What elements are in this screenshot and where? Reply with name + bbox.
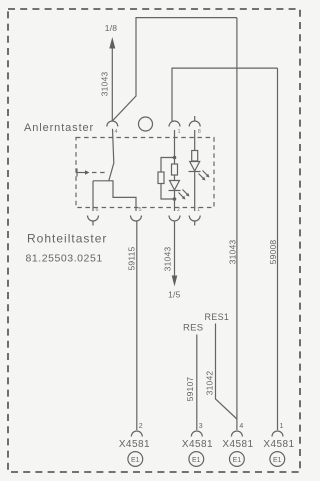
- svg-text:81.25503.0251: 81.25503.0251: [26, 253, 103, 265]
- wire junction to resistor: [174, 158, 176, 165]
- wire: [174, 175, 176, 181]
- LED D1: [169, 181, 190, 200]
- switch top pin: [107, 121, 118, 127]
- dashed box pushbutton unit: [76, 138, 214, 208]
- svg-text:5: 5: [139, 207, 142, 213]
- wire top net to LED unit pin: [172, 68, 278, 121]
- switch blade: [109, 129, 114, 181]
- svg-text:RES: RES: [183, 323, 203, 334]
- pin stub: [92, 221, 94, 226]
- wire 31042 to X4581.4: [216, 324, 237, 420]
- svg-text:E1: E1: [233, 457, 242, 464]
- wire 59115 to X4581.2: [136, 221, 138, 430]
- svg-text:31043: 31043: [100, 72, 110, 97]
- svg-text:E1: E1: [273, 457, 282, 464]
- wire 59008 vertical to X4581.1: [277, 68, 279, 430]
- svg-text:31042: 31042: [205, 371, 215, 396]
- wire 31043 to switch pin: [111, 48, 113, 122]
- svg-text:Anlerntaster: Anlerntaster: [24, 122, 94, 134]
- LED unit left top pin: [169, 121, 181, 157]
- svg-text:4: 4: [115, 129, 118, 135]
- box bottom pin (unconnected): [88, 216, 99, 222]
- button circle: [139, 117, 153, 131]
- svg-text:E1: E1: [192, 457, 201, 464]
- ground E1: [128, 452, 143, 467]
- svg-text:59115: 59115: [126, 246, 136, 270]
- wire 31043 to 1/5: [174, 221, 176, 279]
- svg-text:31043: 31043: [162, 247, 172, 272]
- svg-text:59008: 59008: [268, 240, 278, 265]
- svg-text:1/5: 1/5: [168, 290, 180, 300]
- wire to switch from top net: [113, 18, 237, 121]
- wire 59107 to X4581.3: [196, 335, 198, 431]
- mechanical actuation arrow: [77, 169, 108, 177]
- ground E1: [189, 452, 204, 467]
- svg-text:E1: E1: [131, 457, 140, 464]
- ground E1: [270, 452, 285, 467]
- svg-text:X4581: X4581: [222, 439, 253, 450]
- svg-text:1: 1: [280, 423, 284, 430]
- svg-text:3: 3: [199, 423, 203, 430]
- svg-text:1: 1: [178, 129, 181, 135]
- connector X4581 pin 2: [119, 423, 150, 450]
- wire to bottom-left pin: [92, 181, 94, 211]
- box bottom pin to 59115: [131, 216, 142, 222]
- svg-text:4: 4: [239, 423, 243, 430]
- LED D2: [189, 162, 210, 181]
- resistor R-right: [192, 151, 198, 162]
- resistor R-series: [172, 164, 178, 175]
- ground E1: [230, 452, 245, 467]
- LED unit bottom pin (unconnected): [189, 207, 200, 226]
- svg-text:2: 2: [177, 207, 180, 213]
- svg-text:RES1: RES1: [205, 312, 230, 322]
- connector X4581 pin 4: [222, 423, 253, 450]
- svg-text:1: 1: [197, 207, 200, 213]
- arrow to 1/5: [172, 276, 178, 287]
- parallel resistor branch: [161, 158, 175, 173]
- svg-text:31043: 31043: [227, 240, 237, 265]
- svg-text:8: 8: [198, 129, 201, 135]
- LED unit right top pin: [189, 116, 201, 151]
- svg-text:59107: 59107: [185, 377, 195, 402]
- connector X4581 pin 3: [182, 423, 213, 450]
- wire 31043 long vertical to X4581.4: [236, 18, 238, 430]
- svg-text:X4581: X4581: [263, 439, 294, 450]
- wire: [161, 184, 175, 200]
- svg-text:2: 2: [139, 423, 143, 430]
- LED unit bottom pin to 1/5: [169, 207, 180, 221]
- arrow to 1/8: [109, 37, 115, 49]
- wire to bottom pin: [174, 191, 176, 212]
- resistor R-parallel: [158, 172, 164, 184]
- connector X4581 pin 1: [263, 423, 294, 450]
- svg-text:X4581: X4581: [182, 439, 213, 450]
- svg-text:Rohteiltaster: Rohteiltaster: [27, 232, 107, 246]
- switch output wiring: [93, 181, 136, 211]
- junction node: [173, 197, 177, 201]
- junction node: [173, 156, 177, 160]
- svg-text:X4581: X4581: [119, 439, 150, 450]
- wire to bottom pin: [194, 172, 196, 212]
- svg-text:6: 6: [96, 207, 99, 213]
- svg-text:1/8: 1/8: [105, 23, 117, 33]
